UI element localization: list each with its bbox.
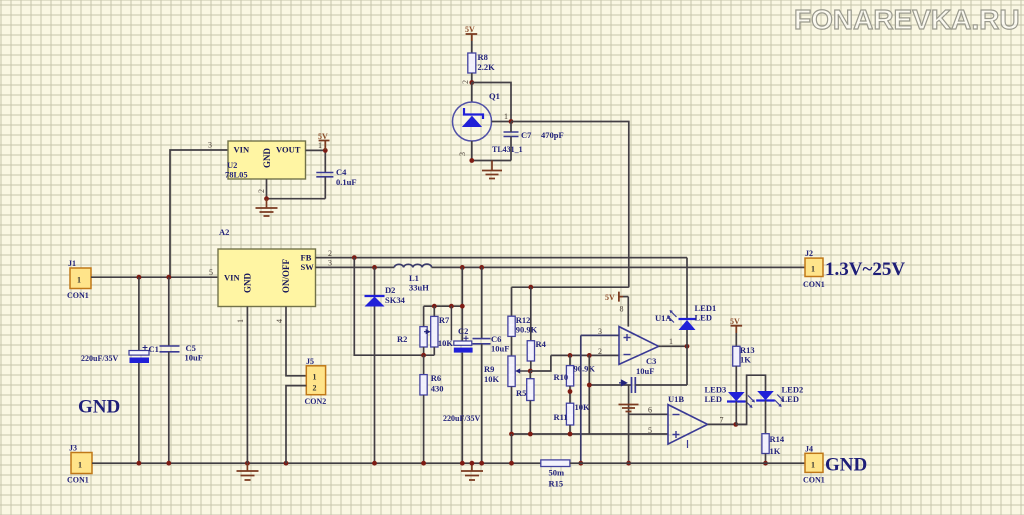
svg-text:C3: C3: [646, 356, 656, 366]
svg-text:220uF/35V: 220uF/35V: [81, 354, 119, 363]
junction R2/R6 at FB line: [421, 353, 426, 358]
ground symbol at TL431: [482, 161, 502, 179]
svg-text:10uF: 10uF: [185, 353, 203, 363]
wire C3 branch vertical: [588, 355, 590, 434]
resistor R8: [468, 53, 476, 73]
svg-text:1K: 1K: [770, 446, 781, 456]
svg-text:VIN: VIN: [234, 145, 250, 155]
svg-text:430: 430: [431, 384, 444, 394]
junction C2 top lead: [449, 304, 454, 309]
resistor R2: [420, 306, 427, 355]
svg-text:1: 1: [811, 265, 815, 274]
resistor R10: [566, 355, 573, 403]
junction rail A2 GND: [245, 461, 250, 466]
svg-text:1: 1: [318, 141, 322, 150]
svg-text:LED3: LED3: [705, 385, 727, 395]
svg-text:2: 2: [257, 189, 266, 193]
wire C2 top stub: [450, 306, 452, 340]
wire FB line: [316, 257, 688, 259]
svg-text:LED2: LED2: [782, 385, 804, 395]
junction rail C6: [479, 461, 484, 466]
svg-text:R10: R10: [554, 372, 569, 382]
svg-text:ON/OFF: ON/OFF: [281, 259, 291, 293]
wire op-amp pin2 line: [551, 354, 619, 356]
wire Q1 ref to TL431 feedback column: [511, 122, 629, 288]
wire pin7 bridge to LED2: [736, 375, 766, 424]
svg-text:TL431_1: TL431_1: [492, 145, 523, 154]
junction rail C2: [460, 461, 465, 466]
svg-text:Q1: Q1: [489, 91, 500, 101]
svg-text:5V: 5V: [605, 293, 615, 302]
svg-text:3: 3: [598, 327, 602, 336]
junction U1B output node: [733, 422, 738, 427]
svg-text:8: 8: [620, 305, 624, 314]
power 5V symbol at U1A pin8: [605, 292, 628, 302]
svg-text:5V: 5V: [730, 317, 740, 326]
capacitor C3: [632, 377, 688, 393]
svg-text:A2: A2: [219, 227, 229, 237]
resistor R5: [527, 371, 534, 434]
wire output node to C3 line: [686, 346, 688, 385]
IC A2 box: [218, 249, 316, 307]
junction Q1 ref node: [509, 119, 514, 124]
wire A2 ON/OFF pin down: [286, 307, 306, 376]
svg-text:1: 1: [669, 337, 673, 346]
polarity arrow at C3: [619, 380, 627, 385]
wire U1A supply: [627, 297, 629, 327]
junction R4/R5 wiper node: [528, 369, 533, 374]
svg-text:R6: R6: [431, 373, 441, 383]
svg-text:C6: C6: [491, 334, 501, 344]
junction C1 tap: [137, 275, 142, 280]
wire cathode into Q1: [471, 83, 473, 103]
svg-text:R11: R11: [554, 412, 568, 422]
svg-text:5V: 5V: [465, 25, 475, 34]
svg-text:10K: 10K: [575, 402, 591, 412]
svg-text:10K: 10K: [438, 338, 454, 348]
wire output line L1 to J2: [432, 266, 805, 268]
svg-text:GND: GND: [243, 273, 253, 294]
connector J5: [306, 366, 325, 395]
wire ground rail right section: [570, 462, 805, 464]
junction rail ON/OFF chain: [284, 461, 289, 466]
connector J1: [70, 268, 91, 289]
svg-text:GND: GND: [78, 397, 120, 418]
svg-text:R13: R13: [740, 345, 755, 355]
capacitor C5: [160, 277, 180, 463]
wire Q1 anode to ground loop: [472, 141, 511, 161]
junction main output vertical: [460, 304, 465, 309]
wire U2 VOUT to 5V node: [306, 150, 326, 172]
svg-text:1: 1: [313, 373, 317, 382]
svg-text:R9: R9: [484, 364, 494, 374]
svg-text:J4: J4: [805, 445, 813, 454]
power 5V symbol above R8: [465, 25, 477, 53]
svg-text:LED: LED: [695, 313, 712, 323]
junction rail ground column: [626, 461, 631, 466]
ground symbol on rail at A2: [237, 463, 259, 480]
junction C3 branch: [587, 353, 592, 358]
svg-text:50m: 50m: [549, 468, 565, 478]
svg-text:C5: C5: [186, 343, 196, 353]
wire R8 bottom to node 2: [471, 73, 473, 83]
svg-text:90.9K: 90.9K: [574, 364, 596, 374]
svg-text:5V: 5V: [318, 132, 328, 141]
svg-text:D2: D2: [385, 285, 395, 295]
junction FB divider tap: [352, 255, 357, 260]
svg-text:R2: R2: [397, 334, 407, 344]
transistor Q1 TL431 circle: [453, 102, 492, 141]
resistor R14: [762, 434, 769, 464]
wire TL431 sense line: [512, 286, 629, 288]
svg-text:5: 5: [209, 268, 213, 277]
junction rail D2: [372, 461, 377, 466]
LED LED1: [667, 258, 696, 347]
resistor R9 (pot): [508, 356, 530, 434]
svg-text:2: 2: [598, 347, 602, 356]
svg-text:R8: R8: [478, 52, 488, 62]
svg-text:1: 1: [78, 461, 82, 470]
junction at TL431 cathode node: [469, 80, 474, 85]
op-amp U1A: [619, 327, 659, 365]
svg-text:0.1uF: 0.1uF: [336, 177, 357, 187]
junction rail C5: [166, 461, 171, 466]
svg-text:J1: J1: [68, 259, 76, 268]
svg-text:C4: C4: [336, 167, 347, 177]
junction rail R6: [421, 461, 426, 466]
junction anode/ground node: [469, 158, 474, 163]
wire SW line to L1: [316, 266, 395, 268]
svg-text:C7: C7: [521, 130, 532, 140]
op-amp U2 78L05 regulator box: [228, 141, 306, 179]
svg-text:1K: 1K: [740, 355, 751, 365]
svg-text:1.3V~25V: 1.3V~25V: [825, 259, 905, 280]
wire cathode loop top: [472, 83, 511, 123]
svg-text:1: 1: [236, 319, 245, 323]
svg-text:SK34: SK34: [385, 295, 406, 305]
svg-text:10uF: 10uF: [636, 366, 654, 376]
svg-text:FB: FB: [301, 253, 312, 263]
junction U1A output node: [685, 344, 690, 349]
resistor R13: [733, 346, 740, 392]
LED LED2: [756, 391, 784, 434]
junction C5/U2 tap: [166, 275, 171, 280]
svg-text:J2: J2: [805, 249, 813, 258]
resistor R12: [508, 287, 515, 356]
op-amp U1B: [668, 405, 708, 448]
inductor L1: [394, 264, 431, 267]
wire Q1 pin1 to right node: [492, 121, 512, 123]
connector J4: [805, 453, 823, 472]
wire ground rail left section: [92, 462, 541, 464]
svg-text:LED: LED: [782, 394, 799, 404]
wire U2 GND pin down: [266, 179, 268, 199]
svg-text:U1B: U1B: [668, 394, 684, 404]
connector J3: [71, 453, 92, 474]
svg-text:R14: R14: [770, 434, 785, 444]
svg-text:CON1: CON1: [803, 280, 825, 289]
capacitor C2 (polarized): [454, 336, 473, 463]
junction rail C1: [137, 461, 142, 466]
svg-text:220uF/35V: 220uF/35V: [443, 414, 481, 423]
svg-text:VIN: VIN: [224, 273, 240, 283]
junction U2 ground node: [264, 196, 269, 201]
svg-text:LED: LED: [705, 394, 722, 404]
wire C4 bottom to U2 GND: [267, 198, 326, 200]
svg-text:GND: GND: [825, 455, 867, 476]
wire J5 pin2 to rail: [286, 386, 306, 464]
svg-text:1: 1: [77, 276, 81, 285]
power 5V symbol at U2 VOUT: [318, 132, 330, 150]
junction pin5 R5: [528, 432, 533, 437]
svg-text:VOUT: VOUT: [276, 145, 301, 155]
svg-text:R7: R7: [439, 315, 450, 325]
wire R9 chain to rail: [511, 434, 513, 463]
svg-text:R12: R12: [516, 315, 531, 325]
capacitor C6: [473, 267, 491, 463]
capacitor C4: [316, 173, 333, 199]
svg-text:J3: J3: [69, 444, 77, 453]
junction D2 tap: [372, 265, 377, 270]
svg-text:CON2: CON2: [305, 397, 327, 406]
svg-text:1: 1: [504, 112, 508, 121]
watermark FONAREVKA.RU: [794, 4, 1024, 36]
svg-text:SW: SW: [301, 262, 315, 272]
ground symbol at U2: [256, 199, 278, 216]
svg-text:U2: U2: [227, 160, 237, 170]
capacitor C1 (polarized): [129, 277, 149, 463]
svg-text:90.9K: 90.9K: [516, 325, 538, 335]
svg-text:2: 2: [328, 249, 332, 258]
capacitor C7: [504, 122, 519, 161]
svg-text:CON1: CON1: [803, 476, 825, 485]
svg-text:3: 3: [458, 152, 467, 156]
svg-text:L1: L1: [409, 273, 419, 283]
svg-text:3: 3: [328, 259, 332, 268]
wire pin3 column to sense rail: [580, 335, 582, 463]
svg-text:R15: R15: [549, 479, 564, 489]
junction VOUT node: [323, 148, 328, 153]
wire output node down to divider tie: [461, 267, 463, 341]
wire U1B output: [708, 423, 747, 425]
diode D2: [365, 267, 385, 463]
svg-text:J5: J5: [306, 357, 314, 366]
junction C2 tap: [460, 265, 465, 270]
wire pin3 line (non-inverting): [581, 334, 619, 336]
svg-text:GND: GND: [262, 148, 272, 169]
svg-text:10uF: 10uF: [491, 344, 509, 354]
wire wiper to inverting input riser: [530, 355, 551, 371]
resistor R11: [566, 403, 573, 434]
svg-text:LED1: LED1: [695, 303, 717, 313]
resistor R7 (pot): [424, 306, 438, 355]
wire pin5 line: [512, 433, 669, 435]
wire input line J1 to A2 VIN: [91, 276, 218, 278]
svg-text:2.2K: 2.2K: [478, 62, 496, 72]
wire C3 line left segment: [589, 384, 631, 386]
ground column at U1B pin6: [619, 385, 639, 463]
svg-text:78L05: 78L05: [225, 170, 248, 180]
junction C3 line: [587, 383, 592, 388]
junction R7 top: [432, 304, 437, 309]
junction pin5 R11: [568, 432, 573, 437]
svg-text:470pF: 470pF: [541, 130, 564, 140]
junction pin5 R9 chain: [509, 432, 514, 437]
svg-text:4: 4: [275, 319, 284, 323]
svg-text:R4: R4: [536, 339, 547, 349]
svg-text:1: 1: [811, 461, 815, 470]
svg-text:2: 2: [313, 384, 317, 393]
wire divider tie line: [424, 305, 463, 307]
junction rail R9 chain: [509, 461, 514, 466]
junction C6 tap: [479, 265, 484, 270]
svg-text:10K: 10K: [484, 374, 500, 384]
junction R4 top: [528, 285, 533, 290]
junction rail ground stub: [470, 461, 475, 466]
svg-text:C1: C1: [149, 344, 159, 354]
resistor R6: [420, 355, 427, 463]
connector J2: [805, 258, 823, 276]
svg-text:7: 7: [720, 416, 724, 425]
wire A2 GND pin to rail: [246, 307, 248, 464]
LED LED3: [727, 392, 755, 424]
svg-text:CON1: CON1: [67, 291, 89, 300]
svg-text:2: 2: [461, 80, 470, 84]
junction R10 top: [568, 353, 573, 358]
wire FB node line: [354, 258, 434, 356]
svg-text:33uH: 33uH: [409, 283, 429, 293]
junction rail R14: [763, 461, 768, 466]
svg-text:C2: C2: [458, 326, 468, 336]
ground symbol on rail right of C2: [461, 463, 483, 480]
svg-text:6: 6: [648, 406, 652, 415]
junction R10/R11: [568, 389, 573, 394]
svg-text:R5: R5: [516, 388, 526, 398]
wire U1B pin6 line: [629, 413, 668, 415]
svg-text:3: 3: [208, 141, 212, 150]
wire U1A output: [659, 345, 687, 347]
svg-text:CON1: CON1: [67, 476, 89, 485]
junction rail pin3 column: [578, 461, 583, 466]
power 5V symbol above R13: [730, 317, 742, 346]
svg-text:5: 5: [648, 426, 652, 435]
wire J1 riser to U2 VIN: [170, 150, 228, 277]
resistor R4: [527, 287, 534, 371]
resistor R15 (shunt): [541, 460, 570, 467]
